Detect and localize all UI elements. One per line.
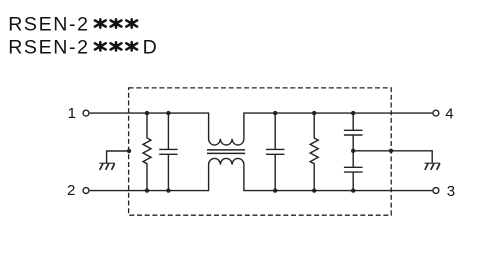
svg-text:1: 1	[68, 105, 76, 122]
svg-text:2: 2	[67, 182, 75, 199]
svg-text:4: 4	[445, 106, 453, 123]
svg-text:3: 3	[447, 183, 455, 200]
svg-text:RSEN-2: RSEN-2	[8, 14, 89, 36]
svg-text:RSEN-2: RSEN-2	[8, 37, 89, 59]
svg-text:D: D	[143, 37, 157, 59]
